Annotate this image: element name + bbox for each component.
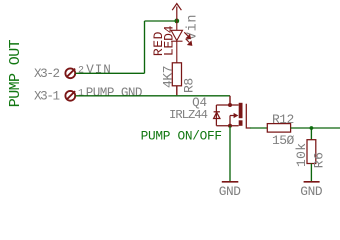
transistor Q4 body: [214, 104, 251, 128]
supply Vin arrow: [172, 4, 181, 21]
svg-text:PUMP ON/OFF: PUMP ON/OFF: [141, 128, 222, 143]
wire X3-2 to corner: [76, 72, 145, 74]
resistor R8: [172, 63, 181, 86]
channel bar segments: [239, 103, 243, 118]
svg-text:GND: GND: [219, 184, 242, 197]
transistor Q4 drain pin: [229, 96, 231, 105]
svg-text:1: 1: [78, 89, 84, 100]
svg-text:PUMP GND: PUMP GND: [86, 86, 142, 100]
junction dot Vin node: [174, 19, 179, 24]
bulk arrowhead: [234, 113, 239, 118]
svg-text:2: 2: [78, 65, 84, 76]
svg-text:Vin: Vin: [185, 14, 200, 40]
ground left: [222, 181, 239, 183]
svg-text:X3-2: X3-2: [34, 67, 59, 81]
connector X3-1: [65, 91, 75, 101]
svg-text:LED4: LED4: [161, 25, 176, 56]
junction dot gate net: [310, 126, 314, 130]
wire gate to R12: [250, 127, 267, 129]
svg-text:GND: GND: [300, 184, 323, 197]
svg-text:15Ø: 15Ø: [272, 133, 295, 148]
junction dots on symbol: [228, 103, 232, 107]
LED emission arrows: [184, 32, 191, 45]
svg-text:PUMP OUT: PUMP OUT: [7, 39, 24, 107]
connector X3-2: [65, 68, 75, 78]
svg-text:R6: R6: [312, 152, 327, 169]
svg-text:VIN: VIN: [86, 63, 111, 77]
svg-text:4K7: 4K7: [160, 66, 175, 88]
resistor R6: [307, 140, 316, 164]
svg-text:IRLZ44: IRLZ44: [169, 108, 208, 122]
wire top to Vin junction: [145, 20, 177, 22]
svg-text:X3-1: X3-1: [34, 90, 59, 104]
svg-text:10k: 10k: [294, 143, 309, 167]
wire X3-1 / pump gnd to drain: [76, 95, 231, 97]
wire vertical up: [144, 21, 146, 73]
wire R12 to right edge: [291, 127, 340, 129]
LED LED4: [171, 21, 182, 63]
wire junction down to R6: [310, 128, 312, 140]
ground right: [304, 181, 320, 183]
wire source to gnd: [229, 126, 231, 181]
svg-text:R12: R12: [272, 112, 294, 127]
resistor R12: [267, 124, 290, 133]
svg-text:R8: R8: [181, 78, 196, 93]
wire R6 to gnd: [310, 164, 312, 182]
